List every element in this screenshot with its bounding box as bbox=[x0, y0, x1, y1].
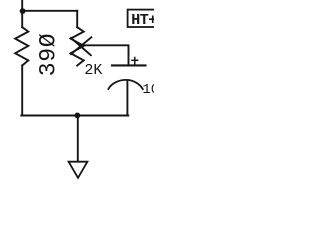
svg-text:10: 10 bbox=[142, 82, 154, 98]
wire: pot top lead bbox=[76, 11, 78, 27]
capacitor C1 curved bottom plate bbox=[108, 80, 142, 89]
wire: down to ground bbox=[77, 116, 79, 162]
wire: wiper to capacitor bbox=[84, 45, 129, 65]
wire: R1 top lead bbox=[21, 11, 23, 27]
capacitor C1 top plate bbox=[112, 64, 146, 66]
potentiometer R2 zigzag body bbox=[71, 27, 84, 65]
svg-text:39Ø: 39Ø bbox=[36, 33, 62, 77]
wire: R1 bottom lead down to bottom rail bbox=[21, 66, 23, 116]
wire: bottom rail bbox=[21, 115, 128, 117]
wire: C1 bottom lead bbox=[126, 81, 128, 116]
wire: top stub above node from image edge bbox=[21, 0, 23, 11]
svg-text:HT+: HT+ bbox=[131, 12, 154, 29]
node A: junction dot top-left bbox=[20, 8, 26, 14]
svg-text:2K: 2K bbox=[84, 62, 102, 79]
wire: top horizontal from node A to potentiometer bbox=[23, 10, 78, 12]
resistor R1 390 zigzag bbox=[15, 27, 28, 65]
potentiometer wiper arrow (crossed barbs) bbox=[71, 38, 91, 55]
net label box HT+ bbox=[128, 10, 162, 27]
ground symbol bbox=[69, 162, 88, 178]
capacitor C1 plus polarity mark bbox=[134, 58, 136, 66]
node B: junction dot bottom bbox=[75, 113, 81, 119]
